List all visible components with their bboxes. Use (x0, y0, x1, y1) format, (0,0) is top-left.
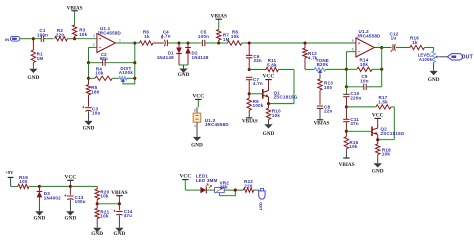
svg-text:180: 180 (91, 89, 99, 94)
svg-text:VBIAS: VBIAS (314, 121, 330, 127)
node C11-R15-base (345, 130, 348, 133)
node C6-C7-R11 (248, 68, 251, 71)
svg-text:68p: 68p (100, 56, 108, 61)
svg-text:10k: 10k (382, 152, 390, 157)
resistor R20 (95, 186, 110, 203)
node VCC-C13 (69, 185, 72, 188)
resistor R5 (86, 78, 99, 106)
capacitor C6 (246, 43, 262, 70)
ground below R1 (28, 69, 40, 82)
resistor R19 (18, 175, 40, 189)
wire VCC row right (70, 185, 97, 187)
svg-text:10n: 10n (360, 78, 368, 83)
wire diode bottoms (179, 65, 188, 69)
resistor R6 (139, 30, 153, 46)
diode D3 1N4002 (37, 186, 62, 211)
node DIST wiper (133, 77, 136, 80)
svg-text:10k: 10k (231, 34, 239, 39)
ground below R18 (372, 163, 384, 174)
svg-text:10k: 10k (95, 71, 103, 76)
svg-text:5: 5 (352, 39, 354, 43)
resistor R16 (410, 36, 434, 50)
wire R11 loop to emitter (269, 70, 295, 104)
node D2 (186, 41, 189, 44)
svg-text:10k: 10k (100, 194, 108, 199)
svg-text:OUT: OUT (462, 54, 474, 60)
svg-text:3: 3 (93, 34, 95, 38)
resistor R1 (31, 39, 43, 69)
svg-text:1k: 1k (412, 40, 418, 45)
node VR2-R22 (234, 189, 237, 192)
ground below C14 (114, 228, 126, 238)
svg-text:2SC1815G: 2SC1815G (381, 131, 405, 136)
ground below R21 (91, 228, 103, 238)
svg-text:LED 3MM: LED 3MM (196, 178, 218, 183)
wire Q2 emitter (377, 138, 379, 141)
ground below diodes (178, 69, 190, 78)
ground below U1.3 (191, 137, 203, 149)
svg-text:10k: 10k (272, 113, 280, 118)
resistor R4 (89, 66, 120, 80)
capacitor C8 (317, 104, 333, 119)
svg-text:4.7u: 4.7u (161, 34, 171, 39)
power +9V flag (5, 170, 14, 187)
capacitor C9 (346, 74, 381, 90)
power VBIAS below R9 (242, 118, 258, 125)
power VBIAS below R15 (339, 158, 355, 168)
op-amp U1.1 (93, 26, 122, 53)
node C5-R7-R8 (217, 41, 220, 44)
capacitor C12 (390, 31, 410, 52)
capacitor C11 (343, 107, 359, 131)
connector IN (5, 36, 20, 42)
svg-text:220n: 220n (350, 95, 361, 100)
node inv-input / R4 (87, 77, 90, 80)
connector LED (258, 188, 265, 210)
wire pin6 (346, 52, 356, 70)
wire R17 row (346, 106, 376, 108)
trimmer VR2 25k (215, 181, 230, 196)
wire LEVEL to ground (433, 62, 435, 71)
svg-text:GND: GND (34, 216, 46, 222)
wire TONE right (326, 68, 347, 70)
op-amp U1.2 (352, 29, 381, 57)
svg-text:GND: GND (91, 231, 103, 237)
svg-text:4.7n: 4.7n (253, 81, 263, 86)
wire VR2 to R22 (224, 189, 243, 191)
node R8-C6 (248, 41, 251, 44)
svg-text:7: 7 (378, 43, 380, 47)
svg-text:10u: 10u (92, 110, 100, 115)
svg-text:1N4002: 1N4002 (44, 195, 61, 200)
svg-text:VCC: VCC (179, 174, 191, 180)
svg-text:100: 100 (324, 85, 332, 90)
svg-text:220: 220 (244, 183, 252, 188)
node R2-R3 (73, 37, 76, 40)
wire TONE wiper to R13 (319, 74, 321, 79)
node D1 (177, 41, 180, 44)
svg-text:GND: GND (191, 143, 203, 149)
svg-text:22n: 22n (324, 109, 332, 114)
svg-text:VBIAS: VBIAS (67, 5, 83, 11)
diode D1 1N4148 (157, 43, 182, 65)
potentiometer DIST A100k (119, 66, 135, 83)
power VCC above Q2 (372, 113, 384, 119)
svg-text:GND: GND (263, 131, 275, 137)
capacitor C13 (64, 186, 86, 211)
wire output (115, 42, 139, 44)
node tone-R14 junction (345, 68, 348, 71)
resistor R22 (243, 179, 259, 192)
resistor R15 (344, 131, 358, 158)
svg-text:33n: 33n (253, 58, 261, 63)
capacitor C2 (89, 52, 135, 66)
svg-text:GND: GND (372, 168, 384, 174)
svg-text:JRC4558D: JRC4558D (97, 30, 122, 35)
resistor R10 (266, 101, 281, 124)
node Q1 emitter (267, 102, 270, 105)
resistor R18 (376, 140, 392, 164)
svg-text:1N4148: 1N4148 (157, 55, 174, 60)
svg-text:2SC1815G: 2SC1815G (274, 95, 298, 100)
power VCC above U1.3 (192, 94, 204, 100)
resistor R9 (247, 94, 264, 118)
svg-text:100n: 100n (37, 32, 48, 37)
svg-text:10k: 10k (349, 144, 357, 149)
wire R12 to TONE (305, 68, 314, 70)
node C10-R17 (345, 105, 348, 108)
capacitor C10 (343, 91, 361, 107)
power VBIAS below C8 (314, 120, 330, 127)
svg-text:100n: 100n (198, 34, 209, 39)
resistor R21 (95, 204, 110, 228)
svg-text:+9V: +9V (5, 170, 14, 175)
svg-text:47u: 47u (124, 213, 132, 218)
capacitor C1 (33, 28, 53, 42)
wire feedback vertical (134, 43, 136, 78)
potentiometer TONE B20k (314, 58, 329, 74)
node VBIAS-C14 (118, 202, 121, 205)
capacitor C5 (198, 30, 219, 47)
svg-text:1: 1 (119, 39, 121, 43)
svg-text:10k: 10k (360, 62, 368, 67)
node input junction (32, 37, 35, 40)
wire VCC row (39, 185, 70, 187)
power VCC supply (65, 175, 77, 187)
power VBIAS supply (111, 190, 127, 204)
wire LED to VR2 (206, 189, 214, 191)
wire out column (381, 48, 383, 87)
power VCC for LED (179, 174, 191, 190)
power VCC above Q1 (263, 74, 275, 80)
svg-text:1u: 1u (391, 36, 397, 41)
svg-text:VBIAS: VBIAS (242, 119, 258, 125)
svg-text:GND: GND (65, 216, 77, 222)
node D3 (38, 185, 41, 188)
wire down to R4 row (88, 63, 90, 79)
svg-text:47n: 47n (350, 121, 358, 126)
capacitor C14 (113, 204, 133, 228)
node R14 right (380, 68, 383, 71)
wire LEVEL wiper to OUT (439, 56, 447, 58)
ground below D3 (34, 211, 46, 221)
wire to op-amp pin 3 (75, 38, 97, 40)
svg-text:JRC4558D: JRC4558D (205, 122, 230, 127)
transistor Q1 2SC1815G (263, 80, 298, 102)
svg-text:GND: GND (83, 125, 95, 131)
wire pin2 feedback (89, 47, 97, 62)
node U1.2 output (380, 46, 383, 49)
svg-text:100: 100 (19, 179, 27, 184)
resistor R17 (376, 95, 394, 109)
svg-text:A100k: A100k (119, 70, 134, 75)
svg-text:GND: GND (114, 231, 126, 237)
svg-text:VCC: VCC (65, 175, 77, 181)
svg-text:LED: LED (258, 202, 263, 210)
wire divider to VBIAS (97, 203, 119, 205)
svg-text:4: 4 (194, 124, 196, 128)
op-amp power unit U1.3 (193, 99, 229, 136)
diode D2 1N4148 (185, 43, 209, 65)
wire U1.2 out (374, 47, 391, 49)
transistor Q2 2SC1815G (372, 118, 405, 138)
svg-text:GND: GND (178, 72, 190, 78)
wire main row to U1.2 (242, 42, 356, 44)
svg-text:1.5k: 1.5k (378, 99, 388, 104)
svg-text:220: 220 (56, 32, 64, 37)
node C2 right (133, 61, 136, 64)
potentiometer LEVEL A100k (418, 51, 439, 62)
svg-text:6: 6 (352, 48, 354, 52)
node C7-R9-base (248, 92, 251, 95)
svg-text:5.6k: 5.6k (267, 63, 277, 68)
ground below LEVEL (428, 71, 440, 83)
power VBIAS above R3 (67, 5, 83, 11)
svg-text:VBIAS: VBIAS (111, 190, 127, 196)
resistor R11 (249, 58, 294, 72)
capacitor C4 (153, 29, 179, 46)
resistor R8 (219, 30, 242, 46)
node op-amp output (133, 41, 136, 44)
wire fb column (345, 69, 347, 94)
node Q2 emitter (376, 138, 379, 141)
resistor R12 (303, 43, 318, 69)
svg-text:VCC: VCC (192, 94, 204, 100)
svg-text:10k: 10k (79, 32, 87, 37)
svg-text:GND: GND (428, 77, 440, 83)
svg-text:VBIAS: VBIAS (211, 13, 227, 19)
wire to Q2 base (346, 130, 372, 132)
wire IN to node (20, 38, 34, 40)
svg-text:JRC4558D: JRC4558D (357, 33, 382, 38)
wire to LEVEL (433, 48, 435, 52)
svg-text:A100k: A100k (419, 57, 433, 62)
svg-text:1N4148: 1N4148 (192, 55, 209, 60)
capacitor C7 (246, 77, 263, 94)
svg-text:10k: 10k (100, 214, 108, 219)
svg-text:1k: 1k (144, 34, 150, 39)
svg-text:100u: 100u (75, 199, 86, 204)
node R12 top (303, 41, 306, 44)
wire DIST wiper loop (123, 78, 135, 84)
ground below R10 (263, 124, 275, 137)
LED1 LED 3MM (196, 174, 218, 194)
svg-text:VCC: VCC (263, 74, 275, 80)
node C9 left (345, 85, 348, 88)
resistor R2 (55, 28, 75, 41)
svg-text:25k: 25k (220, 184, 228, 189)
resistor R3 (72, 11, 87, 39)
svg-text:VBIAS: VBIAS (339, 162, 355, 168)
wire 9V row (11, 185, 18, 187)
power VBIAS above R7 (211, 13, 227, 19)
resistor R14 (346, 57, 381, 71)
svg-text:8: 8 (194, 109, 196, 113)
svg-text:1M: 1M (37, 56, 44, 61)
ground below C3 (83, 121, 95, 131)
svg-text:IN: IN (5, 37, 9, 42)
wire VR2 wiper loop (219, 190, 235, 196)
wire VCC to LED (185, 189, 200, 191)
node inv-input / C2 (87, 61, 90, 64)
svg-text:VCC: VCC (372, 113, 384, 119)
node R20-R21 (96, 202, 99, 205)
svg-text:B20k: B20k (317, 62, 329, 67)
connector OUT (447, 54, 473, 61)
capacitor C3 (82, 106, 100, 121)
resistor R7 (217, 19, 230, 43)
svg-text:GND: GND (28, 75, 40, 81)
svg-text:100k: 100k (253, 103, 264, 108)
resistor R13 (318, 79, 333, 105)
wire to Q1 base (249, 93, 263, 95)
svg-text:2: 2 (93, 43, 95, 47)
wire R17 loop to Q2 emitter (378, 107, 395, 140)
ground below C13 (65, 211, 77, 221)
wire diode tops (179, 42, 202, 44)
